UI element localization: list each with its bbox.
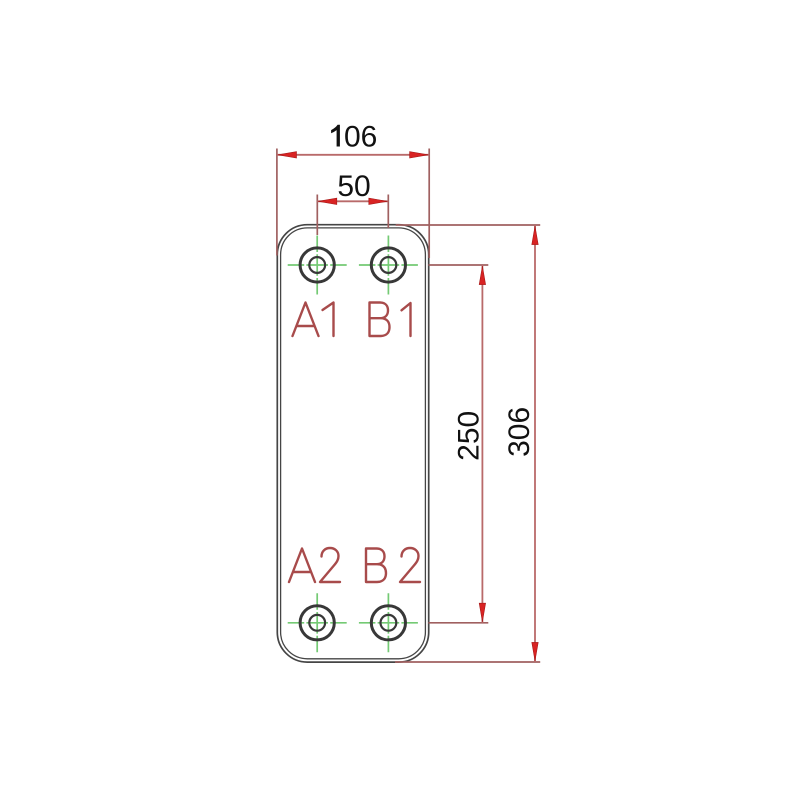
arrow dim 106 left [278, 152, 297, 158]
extension line dim 250 bottom [428, 622, 488, 624]
centerline port A1 [288, 236, 347, 295]
arrow dim 50 right [369, 198, 388, 204]
centerline port B1 [359, 236, 418, 295]
dimension line 106 [277, 154, 429, 156]
extension line dim 106 right [428, 149, 430, 259]
port label B2 [366, 548, 420, 582]
arrow dim 306 bottom [532, 642, 538, 661]
svg-text:250: 250 [452, 411, 485, 461]
port B1 hole [371, 248, 405, 282]
centerline port A2 [288, 593, 347, 652]
svg-text:306: 306 [503, 407, 536, 457]
extension line dim 306 top [396, 224, 541, 226]
centerline port B2 [359, 593, 418, 652]
port label A2 [289, 548, 340, 582]
arrow dim 106 right [410, 152, 429, 158]
svg-text:50: 50 [337, 170, 370, 203]
extension line dim 306 bottom [395, 661, 540, 663]
dimension text 250 [452, 411, 485, 461]
svg-text:06: 06 [344, 120, 377, 153]
dimension text 106 [331, 120, 377, 153]
port B2 hole [371, 606, 405, 640]
arrow dim 250 top [479, 266, 485, 285]
extension line dim 250 top [428, 264, 488, 266]
dimension line 250 [481, 265, 483, 623]
arrow dim 306 top [532, 226, 538, 245]
plate outline outer [277, 225, 428, 662]
extension line dim 50 right [387, 195, 389, 229]
dimension line 50 [317, 200, 388, 202]
dimension text 306 [503, 407, 536, 457]
dimension line 306 [534, 225, 536, 662]
extension line dim 106 left [276, 149, 278, 256]
arrow dim 250 bottom [479, 603, 485, 622]
port label B1 [370, 303, 411, 337]
port A1 hole [300, 248, 334, 282]
port label A1 [293, 303, 334, 337]
extension line dim 50 left [316, 195, 318, 236]
dimension text 50 [337, 170, 370, 203]
port A2 hole [300, 606, 334, 640]
arrow dim 50 left [318, 198, 337, 204]
plate outline inner [281, 228, 426, 659]
